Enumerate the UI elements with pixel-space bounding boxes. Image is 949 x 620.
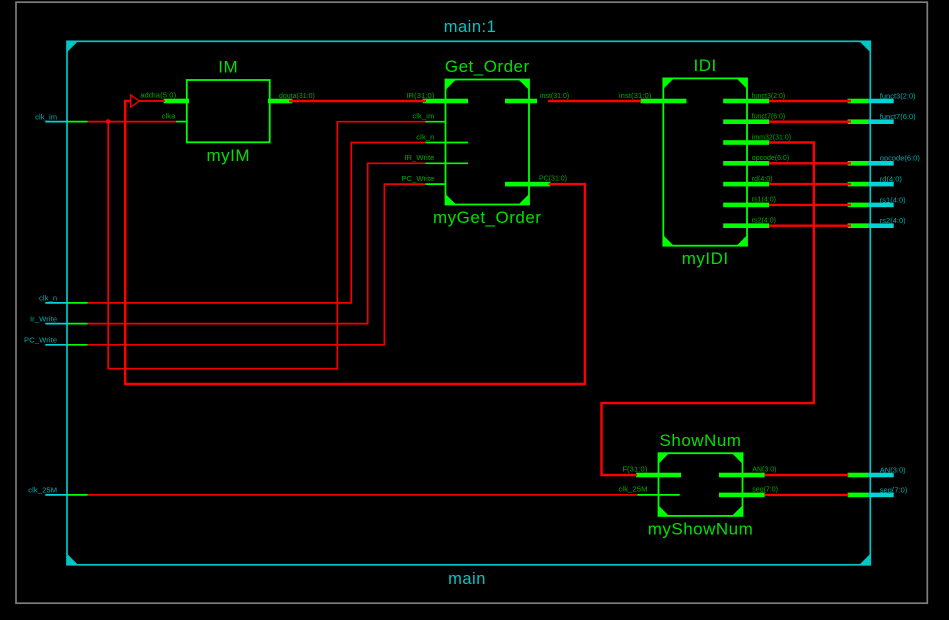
output port terminal AN(3:0) [848, 465, 907, 477]
bus wire AN(3:0) to port [765, 474, 849, 476]
input port terminal clk_n [39, 294, 88, 303]
IDI pin funct7(6:0) [723, 114, 785, 125]
svg-text:rd(4:0): rd(4:0) [880, 175, 903, 184]
svg-text:opcode(6:0): opcode(6:0) [752, 155, 789, 162]
svg-text:myIM: myIM [206, 146, 250, 165]
svg-text:clka: clka [162, 112, 177, 121]
svg-text:opcode(6:0): opcode(6:0) [880, 154, 921, 163]
svg-text:myIDI: myIDI [682, 249, 729, 268]
svg-text:IR(31:0): IR(31:0) [406, 91, 435, 100]
Get_Order pin clk_im [412, 112, 445, 122]
svg-text:clk_n: clk_n [416, 132, 434, 141]
svg-text:seg(7:0): seg(7:0) [880, 485, 908, 494]
svg-text:myGet_Order: myGet_Order [433, 208, 541, 227]
bus wire opcode(6:0) to port [769, 162, 851, 164]
svg-text:clk_n: clk_n [39, 294, 57, 303]
input port terminal clk_25M [28, 486, 87, 495]
svg-text:funct7(6:0): funct7(6:0) [752, 114, 785, 121]
svg-text:AN(3:0): AN(3:0) [752, 467, 776, 474]
svg-text:clk_im: clk_im [35, 112, 57, 121]
Get_Order pin clk_n [416, 132, 468, 142]
IM pin addra(5:0) [140, 91, 189, 104]
svg-text:funct3(2:0): funct3(2:0) [752, 93, 785, 100]
svg-text:clk_25M: clk_25M [28, 486, 57, 495]
block IDI (instance myIDI) [663, 56, 747, 268]
ShowNum pin clk_25M [619, 485, 680, 495]
svg-text:PC_Write: PC_Write [24, 336, 57, 345]
svg-text:PC(31:0): PC(31:0) [539, 176, 567, 183]
wire clk_n to Get_Order clk_n [88, 143, 426, 303]
svg-text:rs1(4:0): rs1(4:0) [880, 195, 906, 204]
wire clk_25M to ShowNum clk_25M [88, 494, 638, 496]
block ShowNum (instance myShowNum) [648, 431, 754, 539]
junction on clk_im net [106, 119, 111, 124]
bus wire imm32(31:0) IDI to ShowNum F [602, 143, 814, 476]
svg-text:clk_im: clk_im [412, 112, 434, 121]
svg-text:myShowNum: myShowNum [648, 519, 754, 538]
svg-text:clk_25M: clk_25M [619, 485, 648, 494]
ShowNum pin AN(3:0) [719, 467, 776, 478]
svg-text:addra(5:0): addra(5:0) [140, 91, 176, 100]
IDI pin imm32(31:0) [723, 134, 791, 145]
Get_Order pin IR(31:0) [406, 91, 468, 103]
svg-text:IDI: IDI [694, 56, 717, 75]
svg-text:imm32(31:0): imm32(31:0) [752, 134, 791, 141]
wire clk_im branch to Get_Order clk_im [108, 122, 425, 369]
svg-text:AN(3:0): AN(3:0) [880, 465, 906, 474]
svg-text:rs2(4:0): rs2(4:0) [880, 216, 906, 225]
bus wire douta(31:0) IM to Get_Order IR [289, 100, 426, 102]
ShowNum pin F(31:0) [622, 465, 681, 478]
svg-text:funct3(2:0): funct3(2:0) [880, 91, 916, 100]
input port terminal PC_Write [24, 336, 87, 345]
block IM (instance myIM) [187, 58, 270, 165]
svg-text:rs1(4:0): rs1(4:0) [752, 197, 776, 204]
output port terminal opcode(6:0) [848, 154, 921, 166]
output port terminal seg(7:0) [848, 485, 908, 497]
IM pin douta(31:0) [268, 93, 315, 103]
IM pin clka [162, 112, 187, 122]
bus wire seg(7:0) to port [765, 494, 849, 496]
output port terminal funct7(6:0) [848, 112, 917, 124]
svg-text:main:1: main:1 [444, 18, 497, 36]
bus wire rs1(4:0) to port [769, 204, 851, 206]
svg-text:IR_Write: IR_Write [404, 153, 434, 162]
bus wire funct3(2:0) to port [769, 100, 851, 102]
bus wire inst(31:0) Get_Order to IDI [548, 100, 641, 102]
bus wire funct7(6:0) to port [769, 120, 851, 122]
IDI pin funct3(2:0) [723, 93, 785, 103]
wire PC_Write to Get_Order PC_Write [88, 184, 426, 345]
output port terminal rd(4:0) [848, 175, 903, 187]
IDI pin rd(4:0) [723, 176, 772, 187]
svg-text:inst(31:0): inst(31:0) [540, 93, 569, 100]
Get_Order pin inst(31:0) [505, 93, 569, 103]
svg-text:PC_Write: PC_Write [401, 174, 434, 183]
bus wire rd(4:0) to port [769, 183, 851, 185]
input port terminal clk_im [35, 112, 87, 121]
svg-text:douta(31:0): douta(31:0) [279, 93, 315, 100]
ShowNum pin seg(7:0) [719, 487, 778, 498]
svg-text:F(31:0): F(31:0) [622, 465, 648, 474]
svg-text:Ir_Write: Ir_Write [30, 314, 57, 323]
svg-text:funct7(6:0): funct7(6:0) [880, 112, 916, 121]
svg-text:rd(4:0): rd(4:0) [752, 176, 773, 183]
svg-text:main: main [448, 570, 486, 588]
IDI pin rs2(4:0) [723, 218, 776, 229]
svg-text:inst(31:0): inst(31:0) [619, 91, 652, 100]
Get_Order pin PC_Write [401, 174, 445, 184]
svg-text:seg(7:0): seg(7:0) [752, 487, 778, 494]
bus tap arrow into addra [131, 95, 140, 107]
input port terminal Ir_Write [30, 314, 88, 323]
block Get_Order (instance myGet_Order) [433, 57, 541, 227]
svg-text:ShowNum: ShowNum [660, 431, 742, 450]
IDI pin rs1(4:0) [723, 197, 776, 208]
bus wire rs2(4:0) to port [769, 224, 851, 226]
Get_Order pin PC(31:0) [505, 176, 567, 187]
svg-text:IM: IM [218, 58, 238, 77]
bus wire PC(31:0) Get_Order to IM addra loop [125, 101, 585, 384]
wire Ir_Write to Get_Order IR_Write [88, 163, 426, 323]
IDI pin opcode(6:0) [723, 155, 789, 166]
top-level block frame main [67, 41, 870, 565]
IDI pin inst(31:0) [619, 91, 687, 103]
wire clk_im terminal to IM clka [88, 121, 177, 123]
Get_Order pin IR_Write [404, 153, 468, 163]
output port terminal rs1(4:0) [848, 195, 907, 207]
svg-text:Get_Order: Get_Order [445, 57, 530, 76]
output port terminal rs2(4:0) [848, 216, 907, 228]
bus wire PC(31:0) arrow to addra stub [140, 100, 165, 102]
output port terminal funct3(2:0) [848, 91, 917, 103]
svg-text:rs2(4:0): rs2(4:0) [752, 218, 776, 225]
